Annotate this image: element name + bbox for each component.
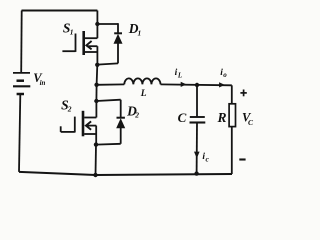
node S2 source / D2 anode	[94, 142, 98, 146]
wire top rail	[22, 9, 98, 11]
resistor R	[229, 104, 235, 127]
wire phase to S2 drain node	[95, 85, 97, 101]
arrow current iL	[181, 82, 187, 87]
diode D2	[96, 100, 125, 145]
wire phase mid segment	[96, 65, 99, 85]
capacitor C	[190, 117, 206, 123]
svg-text:2: 2	[134, 111, 139, 120]
svg-text:C: C	[178, 110, 187, 125]
wire inductor to output corner	[161, 83, 232, 86]
transistor S1	[62, 31, 97, 55]
label iL	[175, 68, 183, 79]
wire phase leg upper (top rail to S1 drain)	[96, 11, 98, 39]
node bottom rail left	[93, 173, 97, 177]
label D1	[128, 21, 142, 38]
arrow current iC	[194, 152, 200, 159]
label io	[220, 68, 227, 79]
battery Vin	[13, 73, 30, 94]
inductor L	[124, 78, 160, 84]
svg-text:1: 1	[70, 27, 74, 36]
svg-text:in: in	[40, 79, 46, 87]
svg-text:C: C	[248, 118, 254, 127]
svg-text:L: L	[140, 89, 147, 99]
minus sign VC	[239, 158, 245, 160]
wire capacitor upper lead	[196, 85, 198, 117]
arrow current io	[219, 82, 225, 87]
node drain S1	[95, 22, 99, 26]
svg-text:1: 1	[138, 28, 142, 37]
wire bottom rail	[19, 172, 232, 175]
label S1	[63, 20, 74, 36]
wire S2 source to bottom rail	[95, 145, 98, 175]
diode D1	[97, 23, 122, 64]
svg-text:2: 2	[67, 104, 72, 113]
wire S1 source leg	[96, 46, 98, 65]
label S2	[61, 97, 72, 113]
wire S2 drain leg	[95, 101, 97, 118]
wire inductor lead-in	[97, 83, 125, 85]
node capacitor tap	[195, 83, 199, 87]
svg-text:L: L	[177, 72, 182, 80]
svg-text:o: o	[223, 71, 227, 79]
node bottom rail capacitor	[194, 171, 198, 175]
label D2	[126, 103, 139, 119]
svg-text:R: R	[217, 110, 227, 125]
wire left rail upper	[20, 11, 23, 73]
wire output right leg upper	[231, 85, 233, 104]
wire S2 source leg	[95, 126, 97, 145]
wire output right leg lower	[231, 127, 233, 174]
label Vin	[33, 71, 45, 87]
svg-text:c: c	[206, 155, 210, 164]
transistor S2	[61, 111, 97, 137]
label plus VC	[240, 90, 246, 97]
node inductor tap	[94, 83, 98, 87]
node S1 source / D1 anode	[95, 63, 99, 67]
wire left rail lower	[19, 95, 20, 172]
label VC	[242, 110, 254, 127]
wire capacitor lower lead	[196, 123, 198, 174]
label iC	[202, 152, 209, 164]
node S2 drain / D2 cathode	[94, 99, 98, 103]
